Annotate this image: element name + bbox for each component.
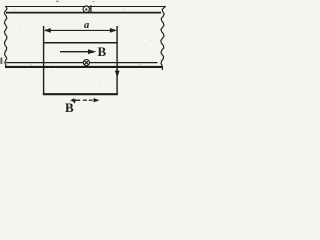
torn edge right bbox=[161, 7, 166, 71]
svg-text:B: B bbox=[98, 44, 107, 59]
wire: solenoid top outer line bbox=[5, 6, 166, 8]
field arrowhead B' left bbox=[70, 98, 74, 102]
dimension arrowhead left bbox=[44, 28, 51, 33]
circulation arrowhead (down) on loop right side bbox=[115, 71, 120, 78]
field arrowhead B bbox=[88, 49, 96, 54]
wire: solenoid bottom outer line bbox=[5, 66, 163, 68]
field arrow B' dashed shaft bbox=[73, 99, 93, 101]
wire: solenoid top inner line bbox=[6, 12, 161, 14]
Amperian loop left side (with dimension extension above) bbox=[43, 26, 45, 95]
torn edge left bbox=[4, 7, 7, 68]
svg-text:a: a bbox=[84, 20, 89, 31]
field arrowhead B' right bbox=[94, 98, 100, 102]
winding cross-section symbol (bottom, current into page) bbox=[83, 60, 89, 66]
svg-text:B: B bbox=[65, 100, 74, 115]
field arrow B shaft bbox=[60, 51, 90, 53]
dimension arrowhead right bbox=[110, 28, 117, 33]
Amperian loop bottom side bbox=[43, 93, 118, 95]
Amperian loop top side bbox=[43, 42, 118, 44]
winding cross-section symbol (top, current out of page) bbox=[83, 5, 91, 12]
prime mark of B' bbox=[74, 100, 75, 104]
scan speckles bbox=[1, 1, 152, 87]
Amperian loop right side (with dimension extension above) bbox=[116, 26, 118, 95]
dimension line a bbox=[45, 29, 116, 31]
wire: solenoid bottom inner line bbox=[6, 62, 158, 64]
